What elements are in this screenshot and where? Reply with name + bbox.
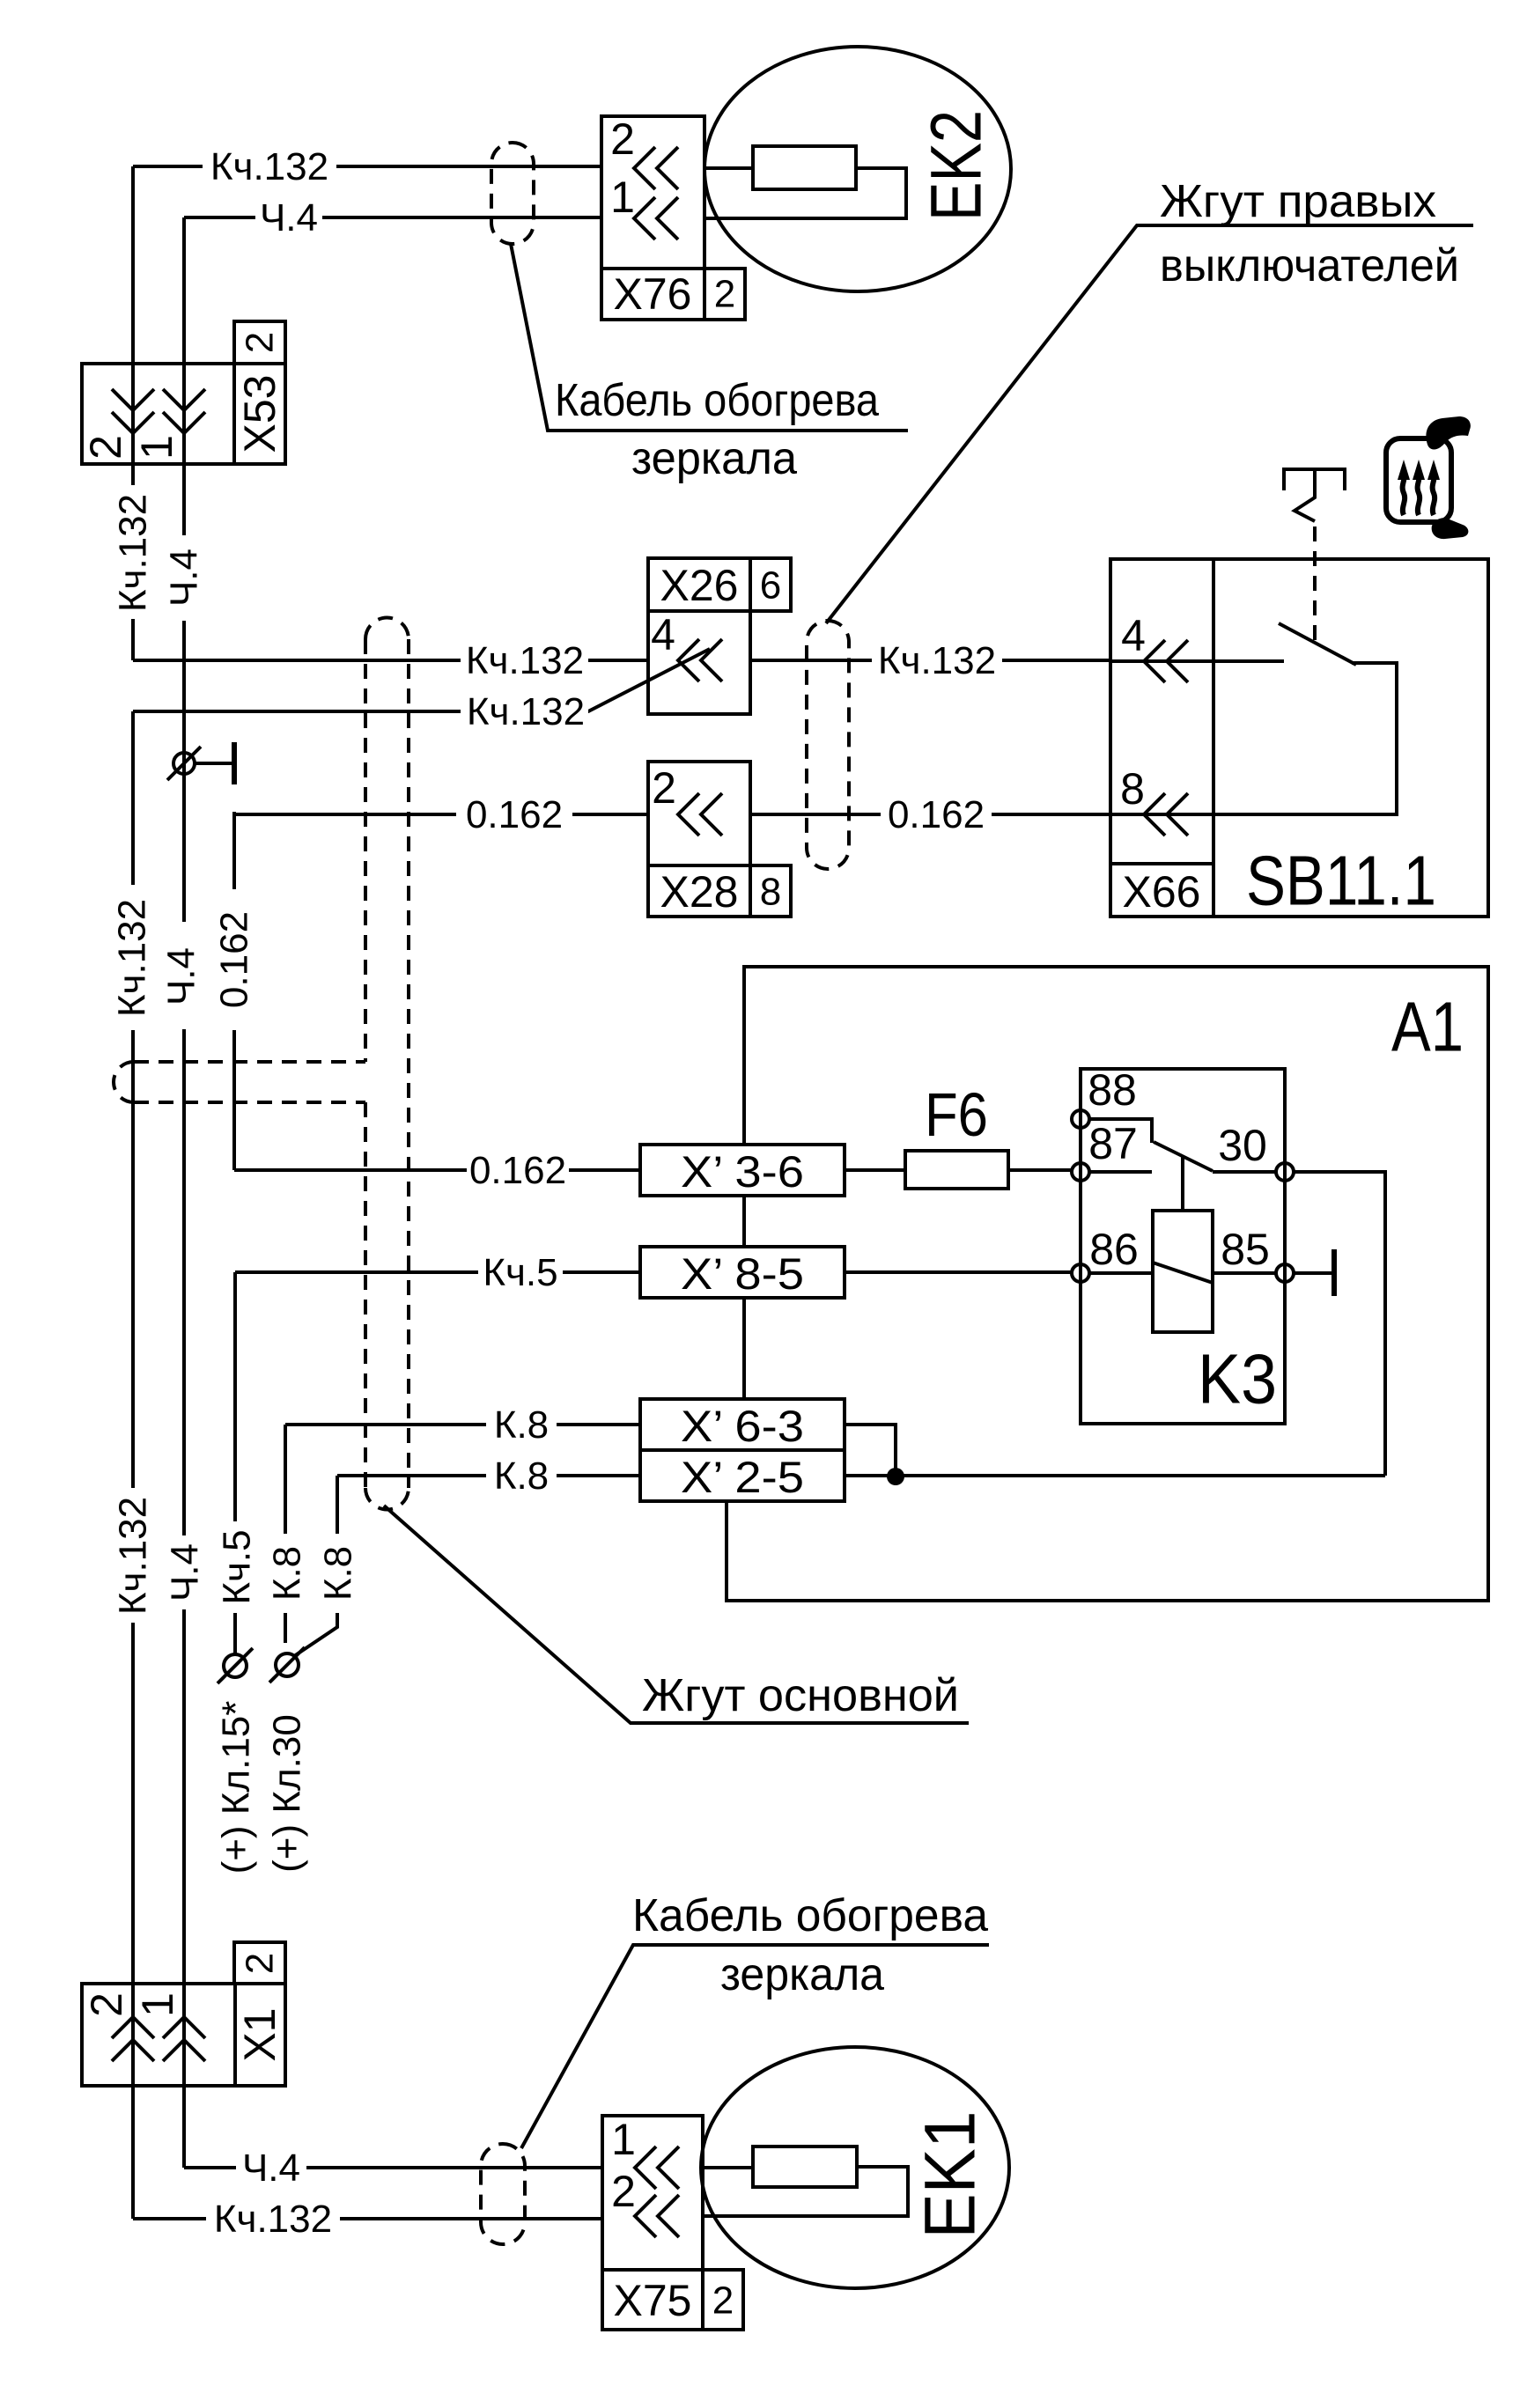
svg-text:2: 2 [611, 2167, 636, 2216]
svg-text:X76: X76 [614, 269, 692, 319]
svg-text:Кабель обогрева: Кабель обогрева [632, 1890, 988, 1941]
svg-text:выключателей: выключателей [1160, 240, 1459, 291]
svg-text:зеркала: зеркала [720, 1949, 884, 2000]
push button cap symbol [1284, 469, 1345, 521]
main harness dashed outline [114, 618, 409, 1510]
X75 pin 2 arrow [611, 2167, 679, 2237]
wire Kch.132 top horizontal [133, 145, 601, 188]
connector X75 main box [602, 2116, 703, 2270]
svg-text:Жгут основной: Жгут основной [642, 1670, 959, 1721]
svg-text:X28: X28 [660, 867, 739, 917]
svg-text:1: 1 [133, 1992, 182, 2017]
svg-text:87: 87 [1088, 1119, 1138, 1168]
svg-text:(+) Кл.15*: (+) Кл.15* [215, 1701, 258, 1874]
wire vertical K.8 first to terminal [266, 1425, 309, 1643]
connector X76 main box [601, 116, 704, 269]
wire vertical K.8 second to terminal [294, 1476, 360, 1656]
connector X76 label box [601, 269, 704, 320]
X1 pin 2 arrow [82, 1992, 154, 2061]
mirror heater EK1 ellipse [701, 2047, 1009, 2288]
connector X53 main box [82, 364, 234, 464]
wire 0.162 X28 to SB11.1 [750, 793, 1110, 836]
relay K3 contact 88 branch [1088, 1065, 1152, 1143]
wire from 30 terminal down [1294, 1172, 1385, 1476]
svg-text:4: 4 [1121, 611, 1146, 660]
connector X28 count box 8 [750, 865, 791, 917]
X1 pin 1 arrow [133, 1992, 205, 2061]
fuse F6 [845, 1080, 1072, 1189]
svg-text:Кч.132: Кч.132 [112, 494, 155, 612]
svg-text:K3: K3 [1198, 1340, 1277, 1418]
relay K3 contact 87 [1088, 1119, 1152, 1172]
wire X'2-5 bottom to A1 edge [725, 1501, 728, 1601]
svg-text:Кч.132: Кч.132 [111, 899, 154, 1017]
wire Kch.132 to X26 pin 4 [133, 639, 648, 682]
svg-text:X53: X53 [235, 375, 284, 453]
svg-text:X’ 3-6: X’ 3-6 [681, 1147, 804, 1197]
wire vertical 0.162 [213, 812, 256, 1170]
relay K3 box [1081, 1069, 1285, 1424]
svg-text:X66: X66 [1123, 867, 1201, 917]
svg-text:Кч.132: Кч.132 [214, 2198, 332, 2241]
svg-text:0.162: 0.162 [888, 793, 985, 836]
label Kabel obogreva zerkala bottom [632, 1890, 988, 2000]
wire 0.162 to X'3-6 [234, 1149, 640, 1192]
svg-text:К.8: К.8 [266, 1546, 309, 1601]
connector X53 label box [234, 364, 285, 464]
svg-text:Кч.5: Кч.5 [216, 1529, 259, 1604]
wire Kch.132 bottom to X75 pin 2 [133, 2198, 602, 2241]
svg-text:F6: F6 [925, 1080, 988, 1149]
junction node dot [887, 1468, 904, 1485]
connector X53 count box 2 [234, 321, 285, 364]
svg-text:EK2: EK2 [917, 110, 997, 221]
svg-text:Кабель обогрева: Кабель обогрева [555, 375, 879, 426]
X76 pin 2 arrow [610, 114, 678, 189]
svg-text:Ч.4: Ч.4 [163, 549, 206, 607]
svg-text:8: 8 [760, 871, 781, 914]
connector X1 main box [82, 1984, 235, 2086]
svg-text:Кч.132: Кч.132 [878, 639, 996, 682]
svg-text:30: 30 [1218, 1121, 1267, 1170]
A1 left edge segments between connector boxes [742, 1196, 746, 1399]
svg-text:2: 2 [610, 114, 635, 164]
svg-text:0.162: 0.162 [213, 911, 256, 1008]
wire Kch.132 X26 to SB11.1 [750, 639, 1110, 682]
svg-text:1: 1 [610, 173, 635, 222]
wire vertical Kch.132 from top corner down to X53 and below [112, 166, 155, 660]
svg-text:Ч.4: Ч.4 [160, 947, 203, 1005]
svg-text:X’ 2-5: X’ 2-5 [681, 1453, 804, 1502]
label Kl.15 [215, 1701, 258, 1874]
X76 pin 1 arrow [610, 173, 678, 239]
svg-text:Кч.5: Кч.5 [483, 1251, 557, 1294]
svg-text:88: 88 [1088, 1065, 1137, 1115]
wire K.8 to X'2-5 [337, 1454, 640, 1498]
svg-text:X’ 6-3: X’ 6-3 [681, 1402, 804, 1451]
wire vertical Ch.4 from top corner down through ground point [160, 217, 207, 2168]
X75 pin 1 arrow [611, 2115, 679, 2189]
svg-text:Кч.132: Кч.132 [112, 1497, 155, 1615]
harness oval top (mirror cable) [491, 143, 534, 244]
wire Kch.5 to X'8-5 [235, 1251, 640, 1294]
svg-text:2: 2 [239, 1953, 282, 1974]
svg-text:1: 1 [611, 2115, 636, 2164]
relay K3 terminal 86 [845, 1225, 1153, 1274]
connector X26 pin box [648, 611, 750, 714]
label Kabel obogreva zerkala top [555, 375, 879, 484]
connector X28 label box [648, 865, 750, 917]
terminal Kl.15 circle [218, 1648, 253, 1683]
label Zhgut osnovnoy [642, 1670, 959, 1721]
svg-text:X26: X26 [660, 561, 739, 610]
X53 pin 2 arrow [81, 389, 154, 460]
svg-text:X75: X75 [614, 2276, 692, 2325]
svg-text:A1: A1 [1391, 988, 1464, 1066]
connector X'3-6 box [640, 1145, 845, 1197]
wire 0.162 to X28 pin 2 [234, 793, 648, 836]
harness oval bottom (mirror cable) [481, 2144, 525, 2244]
svg-text:К.8: К.8 [494, 1454, 549, 1498]
connector X75 label box [602, 2270, 703, 2330]
wire X'2-5 to 30 net [845, 1474, 1385, 1477]
svg-text:2: 2 [82, 1992, 131, 2017]
SB11.1 internal switch contact [1110, 623, 1397, 814]
harness oval right switches [807, 621, 849, 869]
svg-text:X’ 8-5: X’ 8-5 [681, 1249, 804, 1299]
label Kl.30 [266, 1714, 309, 1873]
svg-text:Ч.4: Ч.4 [164, 1543, 207, 1602]
leader line mirror cable top [511, 244, 908, 431]
svg-text:8: 8 [1120, 764, 1145, 814]
svg-text:4: 4 [651, 610, 675, 659]
wire Kch.132 second to X26 pin 4 [133, 649, 710, 733]
relay K3 terminal 85 and ground [1213, 1225, 1334, 1296]
svg-text:SB11.1: SB11.1 [1246, 842, 1436, 920]
connector X76 count box 2 [704, 269, 745, 320]
ground attachment point on Ch.4 [167, 742, 234, 784]
relay K3 coil [1153, 1211, 1213, 1332]
X53 pin 1 arrow [132, 389, 205, 460]
wire vertical Kch.132 lower left column [111, 711, 155, 2219]
relay K3 movable blade [1154, 1142, 1213, 1211]
svg-text:2: 2 [81, 435, 130, 460]
wire Ch.4 bottom to X75 pin 1 [184, 2147, 602, 2190]
mirror heating icon [1386, 416, 1471, 539]
svg-text:EK1: EK1 [911, 2111, 991, 2239]
SB11.1 pin 4 arrow [1121, 611, 1188, 682]
svg-text:Кч.132: Кч.132 [467, 690, 585, 733]
leader line mirror cable bottom [521, 1945, 989, 2148]
SB11.1 pin 8 arrow [1120, 764, 1188, 836]
mirror heater EK2 ellipse [704, 47, 1011, 291]
wire K.8 to X'6-3 [285, 1403, 640, 1447]
connector X'8-5 box [640, 1247, 845, 1299]
svg-text:К.8: К.8 [494, 1403, 549, 1447]
switch SB11.1 body box [1110, 559, 1488, 920]
connector X28 pin box [648, 762, 750, 865]
svg-text:зеркала: зеркала [631, 433, 797, 484]
svg-text:86: 86 [1089, 1225, 1139, 1274]
svg-text:X1: X1 [235, 2007, 284, 2061]
svg-text:6: 6 [760, 564, 781, 608]
relay K3 contact 30 [1213, 1121, 1276, 1172]
label Zhgut pravykh vyklyuchateley [826, 176, 1473, 623]
svg-text:Ч.4: Ч.4 [242, 2147, 300, 2190]
svg-text:2: 2 [652, 763, 676, 813]
relay terminal circles [1072, 1110, 1294, 1282]
EK2 element loop wires [704, 168, 906, 218]
wire vertical Kch.5 to terminal [216, 1272, 259, 1654]
svg-text:Жгут правых: Жгут правых [1160, 176, 1436, 227]
svg-text:2: 2 [239, 332, 282, 353]
svg-text:Кч.132: Кч.132 [466, 639, 584, 682]
svg-text:2: 2 [714, 273, 735, 316]
connector X75 count box 2 [703, 2270, 743, 2330]
svg-text:0.162: 0.162 [466, 793, 563, 836]
connector X1 count box 2 [234, 1942, 285, 1984]
connector X'2-5 box [640, 1450, 845, 1502]
wire X'6-3 to junction [845, 1425, 896, 1469]
svg-text:85: 85 [1221, 1225, 1270, 1274]
EK1 element loop wires [703, 2167, 908, 2216]
X26 pin 4 arrow [651, 610, 722, 681]
svg-text:(+) Кл.30: (+) Кл.30 [266, 1714, 309, 1873]
terminal Kl.30 circle [269, 1647, 305, 1683]
leader line main harness [384, 1506, 969, 1723]
connector X1 label box [235, 1984, 285, 2086]
svg-text:0.162: 0.162 [469, 1149, 566, 1192]
svg-text:К.8: К.8 [317, 1546, 360, 1601]
connector X26 label box [648, 558, 750, 611]
push button actuator dashed rod [1313, 527, 1317, 643]
box A1 outline [727, 967, 1488, 1601]
svg-text:1: 1 [132, 435, 181, 460]
EK1 heating element resistor [753, 2147, 857, 2187]
svg-text:2: 2 [712, 2279, 734, 2323]
connector X66 label box [1110, 864, 1213, 917]
X28 pin 2 arrow [652, 763, 722, 836]
connector X26 count box 6 [750, 558, 791, 611]
svg-text:Кч.132: Кч.132 [210, 145, 328, 188]
connector X'6-3 box [640, 1399, 845, 1451]
EK2 heating element resistor [753, 146, 856, 189]
wire Ch.4 top horizontal [184, 196, 601, 239]
svg-text:Ч.4: Ч.4 [260, 196, 318, 239]
